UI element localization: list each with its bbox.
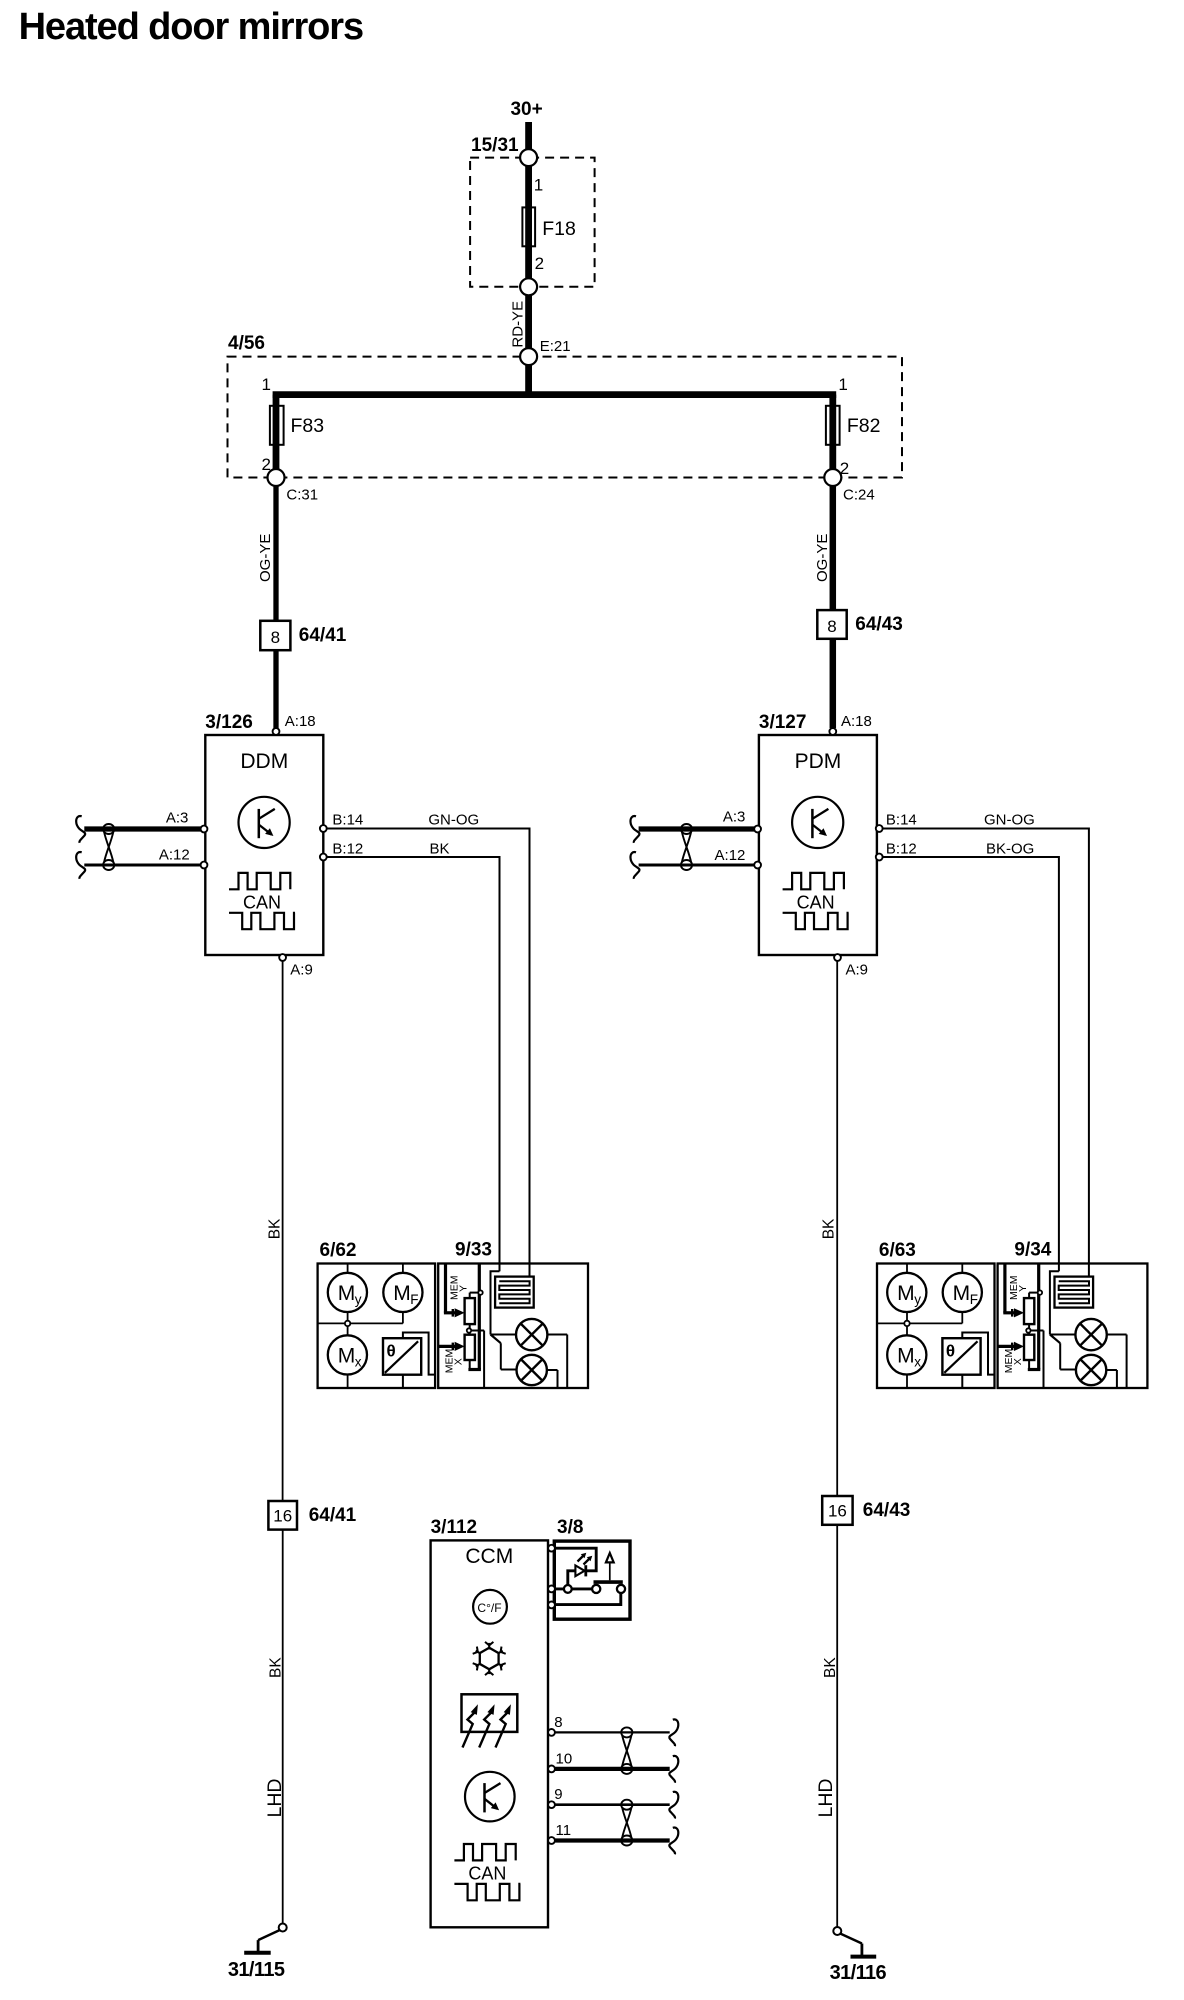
svg-text:16: 16: [828, 1502, 847, 1521]
svg-text:y: y: [914, 1292, 921, 1307]
svg-text:CAN: CAN: [243, 892, 281, 912]
svg-text:BK: BK: [820, 1218, 837, 1239]
svg-text:9/34: 9/34: [1014, 1240, 1051, 1261]
svg-text:8: 8: [827, 617, 836, 636]
svg-text:64/41: 64/41: [299, 625, 347, 646]
svg-text:B:14: B:14: [332, 812, 363, 829]
svg-text:B:12: B:12: [332, 841, 363, 858]
svg-text:θ: θ: [387, 1342, 396, 1361]
svg-text:GN-OG: GN-OG: [984, 812, 1035, 829]
svg-text:8: 8: [554, 1714, 562, 1731]
svg-text:M: M: [393, 1282, 411, 1305]
svg-text:16: 16: [273, 1507, 292, 1526]
svg-text:E:21: E:21: [540, 338, 571, 355]
svg-text:10: 10: [556, 1750, 573, 1767]
svg-text:M: M: [953, 1282, 971, 1305]
svg-text:3/112: 3/112: [431, 1517, 478, 1538]
svg-text:6/63: 6/63: [879, 1240, 916, 1261]
svg-text:1: 1: [838, 375, 847, 394]
svg-text:BK: BK: [430, 841, 450, 858]
svg-text:31/116: 31/116: [830, 1962, 887, 1984]
svg-text:A:12: A:12: [715, 847, 746, 864]
svg-text:F83: F83: [291, 415, 325, 437]
svg-text:BK: BK: [266, 1218, 283, 1239]
svg-text:4/56: 4/56: [228, 333, 265, 354]
svg-text:PDM: PDM: [795, 750, 842, 773]
svg-text:A:3: A:3: [166, 809, 189, 826]
svg-text:X: X: [453, 1358, 465, 1365]
svg-text:X: X: [1012, 1358, 1024, 1365]
svg-text:F82: F82: [847, 415, 881, 437]
svg-text:RD-YE: RD-YE: [510, 301, 527, 348]
svg-text:A:9: A:9: [846, 962, 869, 979]
svg-text:GN-OG: GN-OG: [428, 812, 479, 829]
svg-text:31/115: 31/115: [228, 1959, 285, 1981]
svg-text:8: 8: [271, 628, 280, 647]
svg-text:x: x: [355, 1355, 362, 1370]
svg-text:y: y: [355, 1292, 362, 1307]
svg-text:OG-YE: OG-YE: [814, 534, 831, 582]
svg-text:15/31: 15/31: [471, 135, 519, 156]
svg-text:C:24: C:24: [843, 487, 875, 504]
svg-text:1: 1: [534, 176, 543, 195]
svg-text:OG-YE: OG-YE: [257, 534, 274, 582]
svg-text:BK: BK: [822, 1657, 839, 1678]
svg-text:A:18: A:18: [285, 713, 316, 730]
svg-text:64/43: 64/43: [863, 1500, 911, 1521]
svg-text:x: x: [914, 1355, 921, 1370]
svg-text:M: M: [897, 1345, 915, 1368]
svg-text:C°/F: C°/F: [477, 1601, 501, 1615]
svg-text:9/33: 9/33: [455, 1240, 492, 1261]
svg-text:F18: F18: [542, 218, 576, 240]
svg-text:M: M: [897, 1282, 915, 1305]
svg-text:3/8: 3/8: [557, 1517, 583, 1538]
svg-text:F: F: [410, 1292, 418, 1307]
svg-text:LHD: LHD: [815, 1778, 837, 1817]
svg-text:11: 11: [556, 1822, 572, 1839]
svg-text:DDM: DDM: [240, 750, 288, 773]
svg-text:Y: Y: [1017, 1285, 1029, 1292]
svg-text:1: 1: [262, 375, 271, 394]
svg-text:θ: θ: [946, 1342, 955, 1361]
svg-text:BK-OG: BK-OG: [986, 841, 1034, 858]
svg-text:64/43: 64/43: [855, 614, 903, 635]
svg-text:9: 9: [554, 1786, 562, 1803]
svg-text:3/127: 3/127: [759, 712, 807, 733]
svg-text:Y: Y: [457, 1285, 469, 1292]
svg-text:F: F: [970, 1292, 978, 1307]
svg-text:B:12: B:12: [886, 841, 917, 858]
svg-text:CAN: CAN: [468, 1863, 506, 1883]
svg-text:3/126: 3/126: [205, 712, 253, 733]
svg-text:CAN: CAN: [797, 892, 835, 912]
svg-text:M: M: [338, 1282, 356, 1305]
svg-text:A:18: A:18: [841, 713, 872, 730]
svg-text:30+: 30+: [510, 99, 542, 120]
svg-text:C:31: C:31: [286, 487, 318, 504]
svg-text:M: M: [338, 1345, 356, 1368]
svg-text:6/62: 6/62: [320, 1240, 357, 1261]
svg-text:2: 2: [535, 254, 544, 273]
svg-text:CCM: CCM: [465, 1545, 513, 1568]
svg-text:B:14: B:14: [886, 812, 917, 829]
svg-text:64/41: 64/41: [309, 1505, 357, 1526]
svg-text:A:9: A:9: [290, 962, 313, 979]
svg-text:A:12: A:12: [159, 847, 190, 864]
svg-text:Heated door mirrors: Heated door mirrors: [19, 6, 363, 48]
svg-text:A:3: A:3: [723, 809, 746, 826]
